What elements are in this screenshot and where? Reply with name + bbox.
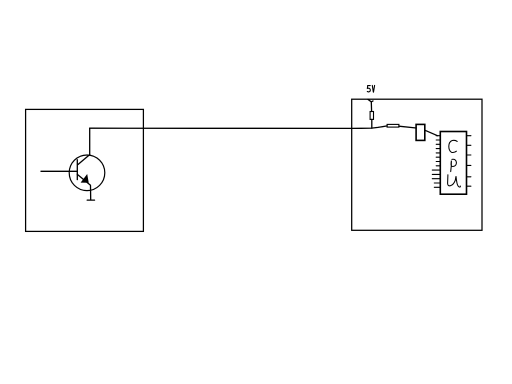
resistor R2 horizontal	[387, 124, 399, 127]
resistor R1 vertical	[370, 112, 373, 120]
transistor Q1 body circle	[69, 155, 105, 191]
wire: collector to right block node	[90, 126, 387, 128]
transistor Q1 emitter lead wire	[90, 186, 92, 200]
wire R2 to C1	[399, 126, 416, 128]
wire C1 to CPU pin	[425, 130, 438, 136]
transistor Q1 emitter terminal tick	[87, 199, 94, 201]
U1 right pins	[467, 136, 471, 187]
transistor Q1 base bar	[76, 160, 78, 180]
wire R1 to node	[371, 119, 373, 128]
label CPU letter u	[448, 175, 461, 187]
transistor Q1 emitter arrowhead	[81, 175, 88, 183]
label CPU letter C	[449, 140, 457, 152]
transistor Q1 collector lead wire	[89, 128, 91, 155]
transistor Q1 collector stroke	[78, 155, 90, 165]
right block outline	[352, 99, 482, 230]
label 5V	[367, 85, 374, 92]
label CPU letter p	[451, 159, 457, 171]
U1 left pins	[432, 136, 440, 188]
5V supply lead wire	[368, 99, 373, 102]
component C1 vertical rect	[416, 124, 425, 140]
transistor Q1 emitter stroke	[77, 174, 90, 185]
IC U1 CPU body	[440, 132, 466, 195]
transistor Q1 base lead wire	[41, 170, 77, 172]
left block outline	[26, 109, 144, 231]
